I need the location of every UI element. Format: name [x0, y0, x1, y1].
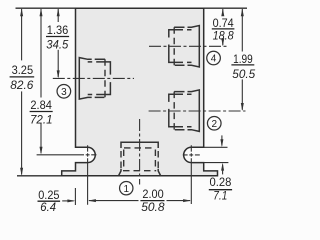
top edge extension line right	[204, 7, 247, 9]
position 3 package dashed right	[104, 59, 106, 97]
left slot centerline horizontal	[37, 154, 97, 156]
position 1 centerline	[139, 119, 141, 185]
right slot centerline horizontal	[183, 154, 200, 156]
svg-text:2: 2	[211, 119, 217, 130]
transistor position 2 clamp rect	[169, 94, 192, 127]
right slot bottom extension	[204, 162, 229, 164]
body left edge extension down	[74, 188, 76, 205]
transistor position 2 package	[174, 90, 199, 131]
position 4 centerline	[149, 45, 229, 47]
dimension 3.25 arrows	[20, 8, 23, 16]
svg-text:3: 3	[61, 87, 67, 98]
svg-text:1: 1	[123, 184, 129, 195]
svg-text:18.8: 18.8	[213, 28, 234, 42]
left slot centerline vertical	[87, 145, 89, 204]
dimension 0.28 bottom stub + arrow	[222, 165, 224, 175]
svg-text:50.8: 50.8	[141, 200, 165, 214]
dimension 0.74 line	[222, 9, 224, 45]
dimension 1.99 arrows	[241, 8, 244, 16]
bar 1.36/34.5	[46, 36, 69, 38]
svg-text:50.5: 50.5	[232, 67, 255, 81]
right slot centerline vertical	[190, 145, 192, 204]
svg-text:1.36: 1.36	[47, 23, 69, 37]
bar 2.00/50.8	[140, 200, 164, 202]
top edge extension line left	[16, 7, 76, 9]
transistor position 1 flange	[119, 169, 161, 176]
dimension 2.00 arrows	[88, 199, 96, 202]
balloon 2	[207, 116, 221, 130]
balloon 1	[120, 181, 133, 194]
bottom edge extension line left	[17, 175, 62, 177]
svg-text:0.28: 0.28	[210, 175, 232, 189]
bar 0.28/7.1	[209, 189, 232, 191]
transistor position 4 clamp rect	[169, 30, 192, 63]
fraction bars	[10, 29, 255, 201]
dimension 1.36 line	[57, 9, 59, 77]
bar 2.84/72.1	[30, 111, 53, 113]
dimension 2.00 line	[89, 200, 190, 202]
transistor position 3 package	[79, 58, 105, 100]
bar 1.99/50.5	[231, 64, 254, 66]
dimension 0.28 top stub + arrow	[221, 135, 223, 145]
svg-text:34.5: 34.5	[46, 37, 68, 51]
dimension 0.74 arrows	[221, 8, 224, 16]
bar 0.25/6.4	[38, 200, 61, 202]
balloon 3	[57, 85, 71, 99]
bar 3.25/82.6	[10, 76, 35, 78]
dimension 2.84 arrows	[40, 8, 43, 16]
dimension 0.25 arrow line	[62, 200, 73, 202]
transistor position 1 solid outline	[121, 142, 158, 148]
bar 0.74/18.8	[212, 28, 235, 30]
dimension 2.84 line	[40, 9, 42, 153]
dimension 1.99 line	[241, 9, 243, 110]
svg-text:7.1: 7.1	[213, 189, 227, 203]
balloon 4	[207, 51, 221, 65]
position 4 package dashed left	[173, 27, 175, 65]
svg-text:1.99: 1.99	[233, 52, 253, 66]
transistor position 3 clamp rect	[88, 62, 111, 95]
svg-text:2.84: 2.84	[30, 98, 52, 112]
right slot top extension	[204, 146, 228, 148]
svg-text:6.4: 6.4	[40, 200, 56, 214]
svg-text:4: 4	[211, 54, 217, 65]
transistor position 4 package	[174, 26, 199, 68]
position 2 centerline	[149, 110, 246, 112]
dimension 1.36 arrows	[57, 8, 60, 16]
svg-text:82.6: 82.6	[10, 78, 33, 92]
chassis body outline	[62, 8, 218, 176]
transistor position 1 dashed package	[121, 148, 158, 171]
svg-text:72.1: 72.1	[30, 113, 53, 127]
position 3 centerline	[53, 77, 134, 79]
dimension 3.25 line	[21, 9, 23, 175]
svg-text:3.25: 3.25	[12, 63, 34, 77]
position 2 package dashed left	[173, 92, 175, 130]
